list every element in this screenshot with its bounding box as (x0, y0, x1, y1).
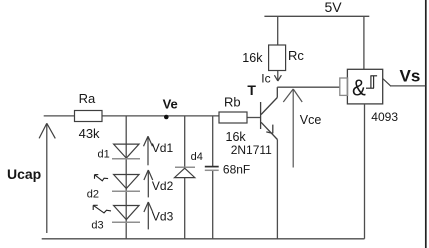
svg-text:Ra: Ra (79, 91, 96, 106)
wire Rb to base (246, 117, 261, 119)
transistor T (261, 87, 278, 139)
svg-text:d3: d3 (91, 219, 103, 231)
svg-text:&: & (352, 75, 366, 101)
diode d4 (175, 167, 196, 177)
svg-text:Ucap: Ucap (7, 166, 41, 182)
svg-text:5V: 5V (325, 0, 343, 15)
current arrow Ic (274, 71, 281, 82)
svg-text:T: T (247, 82, 256, 98)
wire LED chain vertical (125, 116, 127, 239)
gate U1 4093 box (347, 69, 382, 104)
gate input tie bracket (340, 78, 348, 95)
wire 5V to gate top (363, 16, 365, 69)
arrow Vd2 (144, 170, 153, 197)
resistor Ra (75, 111, 103, 122)
svg-text:2N1711: 2N1711 (231, 143, 272, 157)
svg-text:4093: 4093 (371, 110, 398, 124)
wire emitter to rail (276, 140, 278, 239)
wire rail to Rc (277, 16, 279, 45)
power rail 5V (264, 15, 369, 17)
svg-text:Ve: Ve (163, 97, 178, 112)
gate schmitt symbol (366, 76, 377, 88)
resistor Rc (269, 45, 286, 71)
source arrow Ucap (39, 123, 55, 233)
arrow Vce (283, 89, 302, 168)
svg-text:d2: d2 (87, 188, 99, 200)
svg-text:68nF: 68nF (223, 163, 250, 177)
svg-text:Vd2: Vd2 (152, 179, 174, 193)
svg-text:Rc: Rc (288, 48, 304, 63)
LED d2 (112, 175, 140, 192)
frame edge (425, 0, 427, 248)
svg-text:Vd3: Vd3 (152, 210, 174, 224)
svg-text:d1: d1 (98, 149, 110, 161)
gate output diagonal (383, 79, 391, 87)
LED d3 (112, 206, 140, 223)
svg-text:Rb: Rb (224, 94, 241, 109)
wire diode d4 vertical (184, 116, 186, 167)
wire capacitor vertical (212, 116, 214, 167)
svg-text:16k: 16k (242, 51, 263, 65)
svg-text:Vce: Vce (300, 113, 322, 127)
svg-text:Vd1: Vd1 (152, 141, 174, 155)
svg-text:d4: d4 (191, 151, 203, 163)
svg-text:Ic: Ic (261, 72, 270, 86)
arrow Vd3 (144, 202, 153, 229)
wire bottom rail (42, 238, 365, 240)
capacitor C1 plates (205, 166, 219, 168)
svg-text:43k: 43k (79, 126, 100, 141)
svg-text:Vs: Vs (400, 66, 421, 85)
light arrow d2 (95, 175, 109, 181)
wire collector to gate (277, 86, 340, 88)
svg-text:16k: 16k (226, 130, 247, 144)
wire gate bottom to rail (364, 104, 366, 239)
LED d1 (112, 144, 140, 159)
arrow Vd1 (144, 136, 153, 165)
wire output Vs (391, 85, 425, 87)
light arrow d3 (93, 205, 111, 213)
wire main node Ve horizontal (44, 115, 220, 117)
resistor Rb (219, 112, 247, 123)
node Ve dot (164, 115, 169, 120)
